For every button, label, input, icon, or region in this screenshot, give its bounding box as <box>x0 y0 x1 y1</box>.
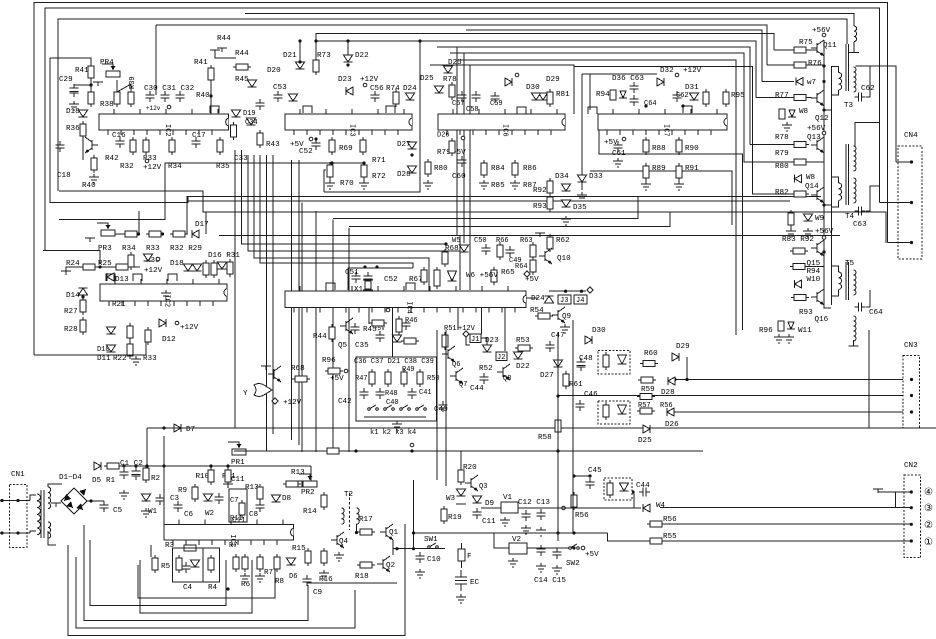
wire top bus 9 <box>437 47 750 145</box>
ground D33 <box>577 192 587 201</box>
svg-text:R47: R47 <box>355 375 368 383</box>
terminal +56V <box>822 33 826 37</box>
switch SW1 <box>429 543 436 547</box>
capacitor C41 v <box>408 388 417 399</box>
wire mid vertical f <box>254 155 429 292</box>
wire IC7 top feed <box>582 73 657 75</box>
svg-text:J2: J2 <box>497 354 505 362</box>
wire C63 loop <box>866 186 880 211</box>
capacitor C32 <box>176 91 185 102</box>
capacitor C51 a <box>352 272 361 283</box>
svg-text:R27: R27 <box>64 308 78 316</box>
transistor Y Q <box>273 369 275 379</box>
svg-text:C44: C44 <box>470 385 484 393</box>
ground C29 <box>69 101 79 110</box>
diode D6 <box>287 558 296 565</box>
svg-text:C40: C40 <box>386 399 399 407</box>
wire C29-R41 <box>74 84 91 86</box>
wire mid vertical o <box>469 66 471 291</box>
junction rail c <box>822 108 825 111</box>
resistor R64 <box>530 260 536 272</box>
resistor R82 <box>794 191 806 197</box>
svg-text:C58: C58 <box>466 106 479 114</box>
svg-text:R96: R96 <box>322 357 336 365</box>
svg-text:Q16: Q16 <box>815 316 829 324</box>
transistor Q12 <box>816 93 818 103</box>
svg-text:R80: R80 <box>434 165 448 173</box>
svg-text:R61: R61 <box>569 381 583 389</box>
wire R77 in <box>756 97 794 99</box>
capacitor C50 <box>482 244 491 255</box>
svg-text:D30: D30 <box>526 84 540 92</box>
zener R94W <box>610 90 616 100</box>
svg-text:D17: D17 <box>195 221 209 229</box>
svg-text:W10: W10 <box>807 276 821 284</box>
wire bottom bus 2 <box>90 540 226 606</box>
resistor R13 b <box>290 481 302 487</box>
wire IC4 pin c <box>457 308 459 331</box>
resistor U3 r <box>607 483 613 495</box>
wire mid bus 6 <box>349 212 670 227</box>
wire mid vertical j2 <box>298 160 300 445</box>
resistor R95 t <box>703 92 709 104</box>
svg-text:D35: D35 <box>573 204 587 212</box>
wire mid vertical j <box>291 160 293 440</box>
diode C53 d <box>289 94 298 101</box>
svg-text:C34: C34 <box>245 119 258 127</box>
svg-text:C62: C62 <box>861 85 875 93</box>
svg-text:C17: C17 <box>192 132 206 140</box>
wire T5 primary bottom <box>832 290 839 296</box>
wire kb right rail a <box>436 330 438 480</box>
resistor R5 l <box>152 558 158 570</box>
CN2 pin junction 1 <box>910 539 913 542</box>
CN4 pin junction 1 <box>910 160 913 163</box>
junction D14-R27 <box>81 295 84 298</box>
wire SW1 rail <box>413 480 415 549</box>
capacitor C51 b <box>364 272 373 283</box>
capacitor C44 b <box>639 488 650 497</box>
wire W5 drop <box>459 236 461 290</box>
wire IC7 left rail <box>581 74 583 190</box>
svg-text:D11: D11 <box>97 355 111 363</box>
terminal +12V c <box>363 83 367 87</box>
wire Q13 emitter <box>806 150 824 162</box>
junction rail a <box>822 64 825 67</box>
capacitor C61 <box>614 141 623 152</box>
diode D7 <box>174 424 181 432</box>
oscillator Y <box>254 384 272 397</box>
ground W11 b <box>784 334 794 343</box>
wire bottom bus 6 <box>68 524 405 636</box>
junction R58 a <box>556 394 559 397</box>
capacitor C63 <box>855 207 866 216</box>
svg-text:R10: R10 <box>196 473 210 481</box>
wire mid vertical i <box>272 155 274 434</box>
svg-text:C4: C4 <box>183 584 193 592</box>
wire CN2 pin3 net <box>660 507 911 509</box>
svg-text:C10: C10 <box>427 556 441 564</box>
wire Q12 emitter <box>824 103 831 110</box>
resistor R45 d <box>372 320 384 326</box>
svg-text:k1 k2 k3 k4: k1 k2 k3 k4 <box>370 429 416 437</box>
svg-text:R58: R58 <box>538 434 552 442</box>
ground T5 bottom <box>849 340 859 346</box>
junction J4 <box>580 290 583 293</box>
ground PR4 <box>93 82 103 86</box>
svg-text:R96: R96 <box>759 327 773 335</box>
ground D35 <box>561 216 571 225</box>
resistor R80 <box>794 159 806 165</box>
ground R16 <box>319 570 329 579</box>
resistor R47 v <box>369 372 375 384</box>
diode D16 <box>218 262 227 269</box>
diode D28 c <box>668 377 675 385</box>
svg-text:R20: R20 <box>463 464 477 472</box>
svg-text:D8: D8 <box>282 495 292 503</box>
junction R74 <box>418 39 421 42</box>
capacitor C47 <box>546 341 555 352</box>
ground V1 <box>500 517 510 526</box>
pin jumper IC4 a <box>326 283 335 290</box>
diode W7 <box>796 78 803 86</box>
diode D27 c <box>554 360 563 367</box>
svg-text:R41: R41 <box>194 59 208 67</box>
junction net a <box>145 464 148 467</box>
zener W3 <box>457 489 466 496</box>
junction D21 top <box>298 60 301 63</box>
resistor R48 v <box>385 372 391 384</box>
ground V2 <box>508 558 518 567</box>
svg-text:C16: C16 <box>112 132 126 140</box>
resistor R94 <box>793 264 805 270</box>
svg-text:D13: D13 <box>115 276 129 284</box>
ground PR3 <box>85 238 95 242</box>
pin jumper IC6 a <box>517 107 526 114</box>
triac U2 d <box>618 405 627 414</box>
potentiometer PR2 <box>303 481 317 487</box>
junction D21 <box>298 39 301 42</box>
wire Q14 emitter <box>824 200 831 205</box>
wire mid vertical k <box>235 150 869 428</box>
resistor R89 <box>643 166 649 178</box>
wire J relay top <box>549 290 586 292</box>
resistor R49 v <box>401 372 407 384</box>
transistor Q14 <box>816 190 818 200</box>
transformer T1 secondary a <box>48 487 51 509</box>
wire PR2 drop <box>310 466 312 481</box>
wire top bus 3 <box>245 14 854 27</box>
junction SW1 in <box>412 547 415 550</box>
wire mid bus 3 <box>219 235 840 237</box>
wire R76 in <box>768 64 794 66</box>
wire CN2 pin4 net <box>878 492 911 493</box>
ground W9 <box>803 228 813 237</box>
wire CN2 link <box>895 492 897 508</box>
svg-text:+56V: +56V <box>815 228 834 236</box>
capacitor C64 b <box>630 95 639 106</box>
svg-text:①: ① <box>924 537 933 549</box>
svg-text:C46: C46 <box>584 391 598 399</box>
resistor R93 <box>547 197 553 209</box>
wire CN2 pin2 net <box>660 523 911 525</box>
svg-text:R15: R15 <box>292 545 306 553</box>
resistor R3 <box>184 545 196 551</box>
ground EC <box>456 594 466 603</box>
svg-text:D25: D25 <box>420 75 434 83</box>
svg-text:R62: R62 <box>556 237 570 245</box>
diode D11 <box>107 345 116 352</box>
resistor R2 <box>143 468 149 480</box>
capacitor C35 c <box>402 319 411 330</box>
bridge rectifier D1-D4 <box>61 488 87 514</box>
transformer T3 core <box>846 44 849 91</box>
transformer T2 left <box>342 508 345 524</box>
potentiometer PR4 <box>106 71 120 77</box>
svg-text:D5: D5 <box>92 477 102 485</box>
svg-text:PR3: PR3 <box>98 245 112 253</box>
svg-text:C42: C42 <box>338 398 352 406</box>
wire IC3 right rail <box>419 41 421 192</box>
resistor R6 v <box>242 557 248 569</box>
svg-text:R76: R76 <box>808 60 822 68</box>
transistor Q17 <box>91 140 93 150</box>
capacitor C52 <box>312 139 321 150</box>
transistor Q10 <box>544 251 546 261</box>
ground R40 <box>89 174 99 183</box>
wire rail collectors <box>831 66 833 305</box>
resistor R54 <box>538 313 550 319</box>
wire C62 loop <box>866 66 870 97</box>
resistor R79 <box>794 142 806 148</box>
wire top bus 6 <box>466 30 762 82</box>
svg-text:D24: D24 <box>531 295 545 303</box>
svg-text:R7: R7 <box>264 569 273 577</box>
diode D29 b <box>505 78 512 86</box>
wire CN4 pin3 <box>888 242 912 244</box>
wire bottom bus 5 <box>76 557 355 628</box>
ground R72 <box>359 180 369 189</box>
resistor R80 b <box>425 162 431 174</box>
zener W5 <box>460 245 469 252</box>
terminal +5V Q10 <box>524 271 530 277</box>
capacitor C56 <box>371 91 380 102</box>
svg-text:Y: Y <box>243 390 248 398</box>
resistor U1 r <box>603 355 609 367</box>
junction C45 a <box>572 474 575 477</box>
svg-text:R32: R32 <box>120 163 134 171</box>
wire J1 feed <box>466 337 470 345</box>
junction V2 rail <box>556 531 559 534</box>
wire R41 top <box>50 58 91 66</box>
CN1 pin junction 1 <box>0 499 3 502</box>
svg-text:R17: R17 <box>359 516 373 524</box>
terminal J4 <box>587 287 593 293</box>
svg-text:Q3: Q3 <box>479 483 487 491</box>
ground C14 <box>536 563 546 572</box>
CN4 pin junction 2 <box>910 201 913 204</box>
resistor PR2 r <box>286 481 298 487</box>
resistor R31 <box>227 262 233 274</box>
wire +12v drop <box>155 25 157 95</box>
resistor W6 r <box>434 270 440 286</box>
ground R24 <box>61 271 71 275</box>
wire mid vertical c <box>332 220 334 453</box>
capacitor C6 <box>174 501 183 512</box>
junction R70 <box>330 161 333 164</box>
svg-text:R78: R78 <box>775 134 789 142</box>
junction R72 <box>362 161 365 164</box>
capacitor C59 <box>491 92 500 103</box>
svg-text:C59: C59 <box>490 100 503 108</box>
diode D25 c <box>444 66 453 73</box>
wire IC4-D24 <box>526 297 538 299</box>
svg-text:③: ③ <box>924 503 933 515</box>
diode D13 <box>107 273 114 281</box>
svg-text:D21: D21 <box>283 52 297 60</box>
junction R41 mid <box>89 83 92 86</box>
capacitor C31 <box>161 91 170 102</box>
resistor R35 <box>217 140 223 152</box>
svg-text:C50: C50 <box>474 237 487 245</box>
capacitor C5 <box>100 501 109 512</box>
resistor R55 <box>650 538 662 544</box>
wire CN3 pin3 net <box>675 379 912 381</box>
svg-text:+5V: +5V <box>604 139 618 147</box>
svg-text:D33: D33 <box>589 173 603 181</box>
resistor R46 <box>396 319 402 332</box>
ground C13 <box>536 527 546 536</box>
diode W10 <box>795 280 802 288</box>
resistor R1 <box>107 463 119 469</box>
wire CN1 pin1 <box>0 500 30 502</box>
junction bridge <box>89 499 92 502</box>
transformer T5 core <box>846 262 849 300</box>
wire IC4 pin a <box>368 308 370 325</box>
transformer T3 left winding <box>839 73 842 90</box>
junction D29 pin <box>685 378 688 381</box>
ground R6 <box>240 573 250 582</box>
connector CN4 box <box>898 146 922 259</box>
terminal +5V IC4 <box>386 308 390 312</box>
resistor R38b <box>88 92 94 104</box>
op-amp IC2 <box>99 114 229 130</box>
svg-text:Q11: Q11 <box>823 42 837 50</box>
svg-text:R38: R38 <box>100 101 114 109</box>
capacitor C3 v <box>156 494 165 505</box>
svg-text:Q1: Q1 <box>389 529 399 537</box>
resistor R20 <box>458 470 464 482</box>
wire mid bus 2 <box>206 212 886 243</box>
wire R75 in <box>774 49 794 51</box>
svg-text:T4: T4 <box>845 213 855 221</box>
wire mid vertical b <box>315 211 317 452</box>
ground W8 <box>782 122 792 131</box>
wire R5 lead <box>150 545 152 557</box>
resistor R75 <box>794 47 806 53</box>
wire R41b down <box>210 80 212 114</box>
wire T5 primary top <box>832 266 839 272</box>
svg-text:R28: R28 <box>64 326 78 334</box>
ground C1 <box>119 490 129 499</box>
resistor R74 <box>393 92 399 104</box>
wire T1 b2 <box>48 531 56 545</box>
terminal +12V h <box>463 331 469 337</box>
diode D22 <box>344 55 353 62</box>
transformer T4 core <box>846 144 849 205</box>
terminal net <box>410 443 414 447</box>
svg-text:R56: R56 <box>575 512 589 520</box>
svg-text:R52: R52 <box>479 365 493 373</box>
resistor R95 <box>723 92 729 104</box>
resistor R78 b <box>449 85 455 97</box>
terminal +5V IC7 <box>622 137 626 141</box>
wire net b <box>163 436 165 524</box>
junction a <box>354 449 357 452</box>
svg-text:R44: R44 <box>235 50 249 58</box>
diode W6 d <box>448 271 457 281</box>
svg-text:W5: W5 <box>452 237 460 245</box>
svg-text:IC3: IC3 <box>348 124 356 137</box>
wire net a <box>146 428 148 466</box>
svg-text:R83 R92: R83 R92 <box>782 236 814 244</box>
resistor R92 <box>547 181 553 193</box>
wire IC7 stub <box>589 74 591 110</box>
svg-text:Q14: Q14 <box>805 183 819 191</box>
svg-text:R3: R3 <box>165 542 175 550</box>
pin jumper IC2b b <box>168 274 177 281</box>
svg-text:Q6: Q6 <box>452 361 460 369</box>
capacitor C53 <box>274 91 283 102</box>
terminal +5V IC3 <box>309 137 313 141</box>
wire R20 top <box>460 451 462 467</box>
svg-text:C18: C18 <box>57 172 71 180</box>
diode D20 b <box>248 80 257 87</box>
wire to SW1 <box>414 548 446 550</box>
wire Q11 collector <box>823 40 825 43</box>
pin jumper IC3 a <box>303 106 312 113</box>
diode W4 <box>643 504 650 512</box>
svg-text:Q5: Q5 <box>338 342 348 350</box>
diode D29 c <box>672 353 679 361</box>
wire top bus 10 <box>450 53 794 162</box>
op-amp IC1 <box>164 525 294 541</box>
svg-text:J1: J1 <box>471 336 479 344</box>
junction C52 <box>314 137 317 140</box>
svg-text:C64: C64 <box>869 309 883 317</box>
svg-text:J3: J3 <box>560 297 568 305</box>
wire R44b <box>215 54 236 58</box>
wire T4 top lead <box>855 123 880 147</box>
svg-text:R56: R56 <box>663 516 677 524</box>
potentiometer PR1 <box>232 449 246 455</box>
capacitor C4 v <box>182 562 191 573</box>
relay J2 <box>496 352 507 361</box>
wire top bus 11 <box>460 60 736 335</box>
svg-text:F: F <box>467 553 472 561</box>
svg-text:D7: D7 <box>186 426 195 434</box>
diode D30 b2 <box>532 93 541 100</box>
ground R89 <box>641 181 651 190</box>
pin jumper IC2 a <box>210 106 219 113</box>
resistor R32 <box>130 140 136 152</box>
diode D25 d <box>643 425 650 433</box>
svg-text:R85: R85 <box>491 182 505 190</box>
svg-text:D1~D4: D1~D4 <box>59 474 82 482</box>
ground R11 <box>223 484 233 488</box>
wire R75 out <box>806 49 817 51</box>
svg-text:+12V: +12V <box>360 76 379 84</box>
